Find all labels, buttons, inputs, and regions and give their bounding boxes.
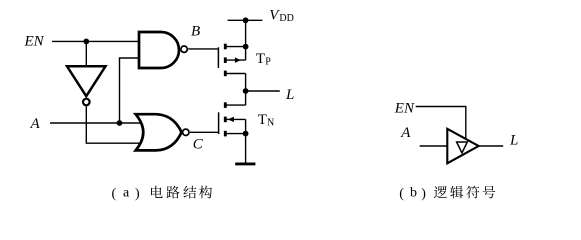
inverter G1 bubble [83,99,90,106]
svg-text:L: L [509,132,518,148]
TN substrate arrow (points left) [228,117,234,123]
svg-text:EN: EN [24,33,45,49]
wire inverter input stem [85,41,87,66]
NOR gate G3 body [136,114,182,150]
wire A (b) [420,145,449,147]
node EN junction dot [83,39,89,45]
wire riser A to NAND lower input [120,58,142,123]
svg-text:T: T [258,112,267,128]
TP substrate arrow (points right) [235,57,241,63]
NAND gate G2 body [139,32,179,68]
wire A input [50,122,144,124]
TN channel bars [224,102,227,136]
caption (a) char dian [151,186,163,198]
svg-text:): ) [135,187,140,202]
svg-text:): ) [421,187,426,202]
TN source node dot [243,131,249,137]
TP gate plate [217,47,219,68]
svg-text:b: b [410,185,417,200]
wire C: NOR output to NMOS gate [190,131,219,133]
svg-text:C: C [193,136,204,152]
wire VDD rail [228,19,263,21]
wire VDD to PMOS source [245,20,247,46]
caption (a) char gou [199,186,212,199]
transistor TN NMOS [219,91,249,163]
TN leads [227,91,246,163]
tri-state marker small triangle [457,142,468,153]
node L junction dot [243,88,249,94]
node A junction dot [117,120,123,126]
svg-text:(: ( [399,187,404,202]
wire L output [246,90,280,92]
TN gate plate [218,112,220,134]
wire L (b) [478,145,504,147]
TP leads [227,47,246,91]
caption (b) char fu [466,186,479,199]
svg-text:a: a [123,185,130,200]
caption (b) char luo [434,186,447,198]
caption (a) [112,185,212,201]
wire B: NAND output to PMOS gate [188,48,218,50]
inverter G1 triangle [67,66,106,96]
svg-text:EN: EN [394,101,415,117]
svg-text:A: A [30,116,41,132]
TP channel bars [224,44,227,76]
wire EN (b) [416,107,466,141]
NOR gate G3 bubble [183,129,189,135]
svg-text:B: B [191,24,200,40]
wire inverter output down and to NOR input [86,106,144,143]
svg-text:(: ( [112,187,117,202]
svg-text:L: L [285,87,294,103]
transistor TP PMOS [218,44,248,91]
node VDD junction dot [243,17,249,23]
part (b) tri-state buffer symbol [416,107,504,147]
caption (b) char hao [483,186,496,199]
ground symbol [235,162,255,165]
TP source node dot [243,44,249,50]
caption (b) char ji [450,186,463,199]
svg-text:P: P [265,56,271,67]
wire EN input [52,40,141,42]
svg-text:DD: DD [279,13,293,24]
buffer triangle (b) [447,129,478,164]
caption (a) char lu [166,186,179,199]
svg-text:T: T [256,51,265,67]
svg-text:A: A [400,125,411,141]
NAND gate G2 bubble [181,46,187,52]
svg-text:N: N [267,118,274,129]
caption (b) [399,185,495,201]
caption (a) char jie [183,186,196,199]
